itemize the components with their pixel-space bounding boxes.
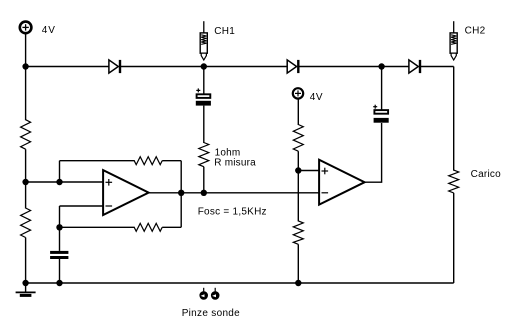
- power source V1 (4V, top left): [20, 22, 32, 34]
- wire left rail middle: [25, 149, 27, 208]
- wire top rail segment 3: [298, 66, 409, 68]
- wire feedback bottom row right: [162, 226, 181, 228]
- wire left rail lower: [25, 238, 27, 284]
- wire divider column upper: [297, 99, 299, 125]
- wire ground stub: [25, 283, 27, 292]
- resistor R6 (divider bottom): [293, 221, 303, 244]
- op-amp U1: [103, 170, 149, 215]
- resistor R1 (left upper): [21, 120, 31, 150]
- capacitor C1 (polarized, under CH1): [196, 88, 211, 105]
- resistor R5 (divider top): [293, 125, 303, 152]
- wire feedback top row left: [60, 160, 135, 162]
- wire cap C2 top: [59, 227, 61, 251]
- wire op1 plus input row: [26, 181, 104, 183]
- wire top rail segment 2: [120, 66, 288, 68]
- probe clip 2 (pinza): [211, 288, 220, 300]
- wire feedback top row right: [162, 160, 181, 162]
- probe CH1: [200, 21, 207, 60]
- svg-text:CH2: CH2: [465, 25, 486, 36]
- node cap C2 bottom junction: [56, 280, 62, 286]
- svg-text:Fosc = 1,5KHz: Fosc = 1,5KHz: [198, 206, 267, 217]
- power source V2 (4V, middle): [293, 88, 303, 98]
- node op1 output junction: [178, 190, 184, 196]
- wire CH1 column lower: [203, 167, 205, 193]
- op-amp U2: [319, 160, 365, 205]
- node top-left junction: [22, 63, 28, 69]
- wire cap C2 bottom: [59, 259, 61, 283]
- resistor R3 (top feedback): [134, 157, 162, 165]
- wire feedback right vertical: [180, 161, 182, 228]
- wire right rail upper: [453, 67, 455, 171]
- node R misura output junction: [201, 190, 207, 196]
- node feedback top junction: [56, 179, 62, 185]
- resistor Carico: [449, 170, 459, 193]
- node cap C3 top junction: [378, 63, 384, 69]
- wire CH1 column upper: [203, 67, 205, 94]
- wire top rail segment 4: [420, 66, 454, 68]
- diode D3: [409, 60, 420, 73]
- node CH1 junction: [201, 63, 207, 69]
- node feedback bottom junction: [56, 224, 62, 230]
- wire op1 minus vertical: [59, 206, 61, 227]
- node op2 plus junction: [295, 167, 301, 173]
- wire right rail lower: [453, 193, 455, 283]
- capacitor C3 (polarized, right): [373, 105, 389, 123]
- wire CH1 column middle: [203, 106, 205, 143]
- svg-text:4V: 4V: [42, 25, 56, 36]
- wire divider column middle: [297, 151, 299, 221]
- ground: [16, 292, 36, 295]
- svg-text:Pinze sonde: Pinze sonde: [182, 308, 240, 319]
- wire cap C3 top: [381, 67, 383, 110]
- capacitor C2 (bottom left): [50, 251, 68, 259]
- diode D2: [287, 60, 298, 73]
- resistor R4 (bottom feedback): [134, 223, 162, 231]
- probe CH2: [450, 21, 457, 60]
- wire feedback left vertical: [59, 161, 61, 182]
- svg-text:R misura: R misura: [214, 158, 256, 169]
- wire op1 output row to op2 minus: [149, 192, 320, 194]
- wire op2 plus input row: [298, 170, 319, 172]
- diode D1: [109, 60, 120, 73]
- svg-text:Carico: Carico: [471, 169, 502, 180]
- wire divider column lower: [297, 244, 299, 283]
- wire left rail upper: [25, 34, 27, 120]
- node divider bottom junction: [295, 280, 301, 286]
- resistor R2 (left lower): [21, 208, 31, 238]
- wire feedback bottom row left: [60, 226, 135, 228]
- node ground junction: [22, 280, 28, 286]
- wire op2 output: [365, 123, 382, 182]
- node op1 plus rail junction: [22, 179, 28, 185]
- wire op1 minus input row: [60, 205, 104, 207]
- wire top rail segment 1: [26, 66, 110, 68]
- svg-text:4V: 4V: [310, 92, 323, 103]
- probe clip 1 (pinza): [199, 288, 208, 300]
- svg-text:CH1: CH1: [214, 26, 235, 37]
- wire bottom rail: [26, 282, 454, 284]
- resistor R misura (1ohm): [199, 143, 209, 167]
